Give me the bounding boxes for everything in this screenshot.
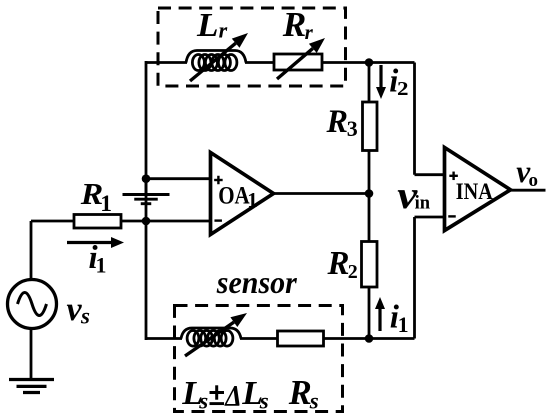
svg-text:1: 1	[100, 191, 112, 217]
svg-text:sensor: sensor	[216, 265, 298, 300]
svg-text:2: 2	[348, 261, 358, 283]
svg-text:s: s	[309, 388, 319, 413]
svg-text:R: R	[327, 245, 350, 282]
svg-text:R: R	[326, 104, 348, 140]
svg-text:s: s	[198, 389, 208, 414]
svg-text:r: r	[305, 20, 314, 44]
svg-text:1: 1	[398, 312, 409, 337]
svg-text:s: s	[80, 304, 90, 329]
svg-text:1: 1	[247, 188, 258, 212]
svg-text:OA: OA	[218, 183, 250, 210]
svg-text:2: 2	[397, 79, 409, 100]
svg-text:R: R	[282, 5, 307, 44]
svg-text:R: R	[288, 374, 312, 412]
svg-text:INA: INA	[456, 179, 493, 205]
svg-text:in: in	[415, 193, 431, 213]
svg-text:Δ: Δ	[224, 380, 241, 412]
svg-text:r: r	[219, 18, 228, 43]
svg-text:1: 1	[96, 253, 107, 278]
svg-text:o: o	[529, 170, 539, 191]
svg-text:s: s	[259, 389, 269, 414]
svg-text:L: L	[196, 7, 219, 44]
svg-text:3: 3	[347, 116, 358, 141]
